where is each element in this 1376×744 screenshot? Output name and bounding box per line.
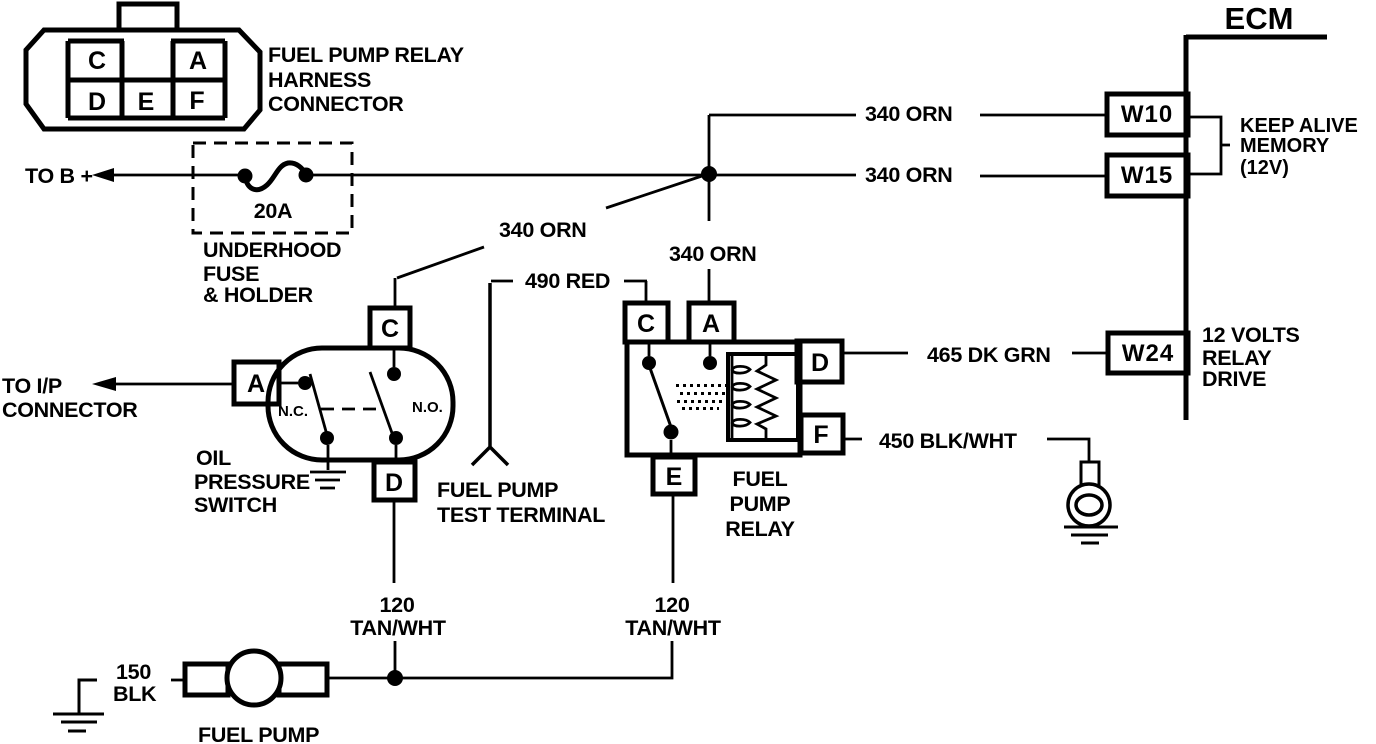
svg-text:D: D bbox=[385, 469, 403, 497]
svg-text:& HOLDER: & HOLDER bbox=[203, 283, 314, 307]
svg-text:E: E bbox=[138, 88, 155, 116]
svg-text:FUEL PUMP RELAY: FUEL PUMP RELAY bbox=[268, 43, 464, 67]
svg-text:UNDERHOOD: UNDERHOOD bbox=[203, 238, 341, 262]
svg-text:C: C bbox=[381, 315, 399, 343]
svg-text:RELAY: RELAY bbox=[725, 517, 794, 541]
svg-text:340 ORN: 340 ORN bbox=[499, 218, 587, 242]
svg-text:ECM: ECM bbox=[1225, 1, 1294, 36]
svg-text:PRESSURE: PRESSURE bbox=[194, 470, 310, 494]
svg-text:KEEP ALIVE: KEEP ALIVE bbox=[1240, 115, 1358, 137]
svg-text:150: 150 bbox=[116, 660, 151, 684]
svg-text:FUEL PUMP: FUEL PUMP bbox=[198, 723, 319, 744]
svg-text:FUEL PUMP: FUEL PUMP bbox=[437, 478, 558, 502]
svg-text:490 RED: 490 RED bbox=[525, 269, 610, 293]
svg-text:465 DK GRN: 465 DK GRN bbox=[927, 343, 1051, 367]
svg-text:450 BLK/WHT: 450 BLK/WHT bbox=[879, 429, 1017, 453]
svg-text:F: F bbox=[189, 87, 204, 115]
svg-text:340 ORN: 340 ORN bbox=[669, 242, 757, 266]
svg-text:W15: W15 bbox=[1121, 162, 1173, 189]
svg-text:CONNECTOR: CONNECTOR bbox=[268, 92, 404, 116]
svg-text:DRIVE: DRIVE bbox=[1202, 367, 1266, 391]
svg-text:A: A bbox=[702, 310, 720, 338]
svg-text:C: C bbox=[637, 310, 655, 338]
svg-text:C: C bbox=[88, 47, 106, 75]
svg-text:A: A bbox=[189, 47, 207, 75]
svg-text:BLK: BLK bbox=[113, 682, 157, 706]
svg-text:FUEL: FUEL bbox=[733, 467, 788, 491]
svg-text:20A: 20A bbox=[254, 199, 293, 223]
svg-text:E: E bbox=[666, 463, 683, 491]
svg-text:D: D bbox=[88, 88, 106, 116]
svg-text:TAN/WHT: TAN/WHT bbox=[350, 616, 446, 640]
svg-text:120: 120 bbox=[655, 593, 690, 617]
svg-text:12 VOLTS: 12 VOLTS bbox=[1202, 323, 1300, 347]
svg-text:TAN/WHT: TAN/WHT bbox=[625, 616, 721, 640]
svg-text:SWITCH: SWITCH bbox=[194, 493, 277, 517]
svg-text:OIL: OIL bbox=[196, 446, 231, 470]
svg-text:TO I/P: TO I/P bbox=[2, 374, 62, 398]
svg-text:W10: W10 bbox=[1121, 101, 1173, 128]
svg-text:TO B +: TO B + bbox=[25, 164, 93, 188]
svg-text:MEMORY: MEMORY bbox=[1240, 135, 1330, 157]
svg-text:A: A bbox=[247, 370, 265, 398]
svg-text:120: 120 bbox=[380, 593, 415, 617]
svg-text:340 ORN: 340 ORN bbox=[865, 102, 953, 126]
svg-text:D: D bbox=[811, 349, 829, 377]
svg-text:PUMP: PUMP bbox=[730, 492, 791, 516]
svg-text:W24: W24 bbox=[1122, 340, 1174, 367]
svg-text:340 ORN: 340 ORN bbox=[865, 163, 953, 187]
svg-text:N.O.: N.O. bbox=[412, 399, 443, 416]
svg-text:F: F bbox=[813, 421, 828, 449]
svg-text:(12V): (12V) bbox=[1240, 157, 1289, 179]
svg-text:TEST TERMINAL: TEST TERMINAL bbox=[437, 503, 605, 527]
svg-text:CONNECTOR: CONNECTOR bbox=[2, 398, 138, 422]
svg-text:HARNESS: HARNESS bbox=[268, 68, 371, 92]
svg-text:N.C.: N.C. bbox=[278, 403, 308, 420]
